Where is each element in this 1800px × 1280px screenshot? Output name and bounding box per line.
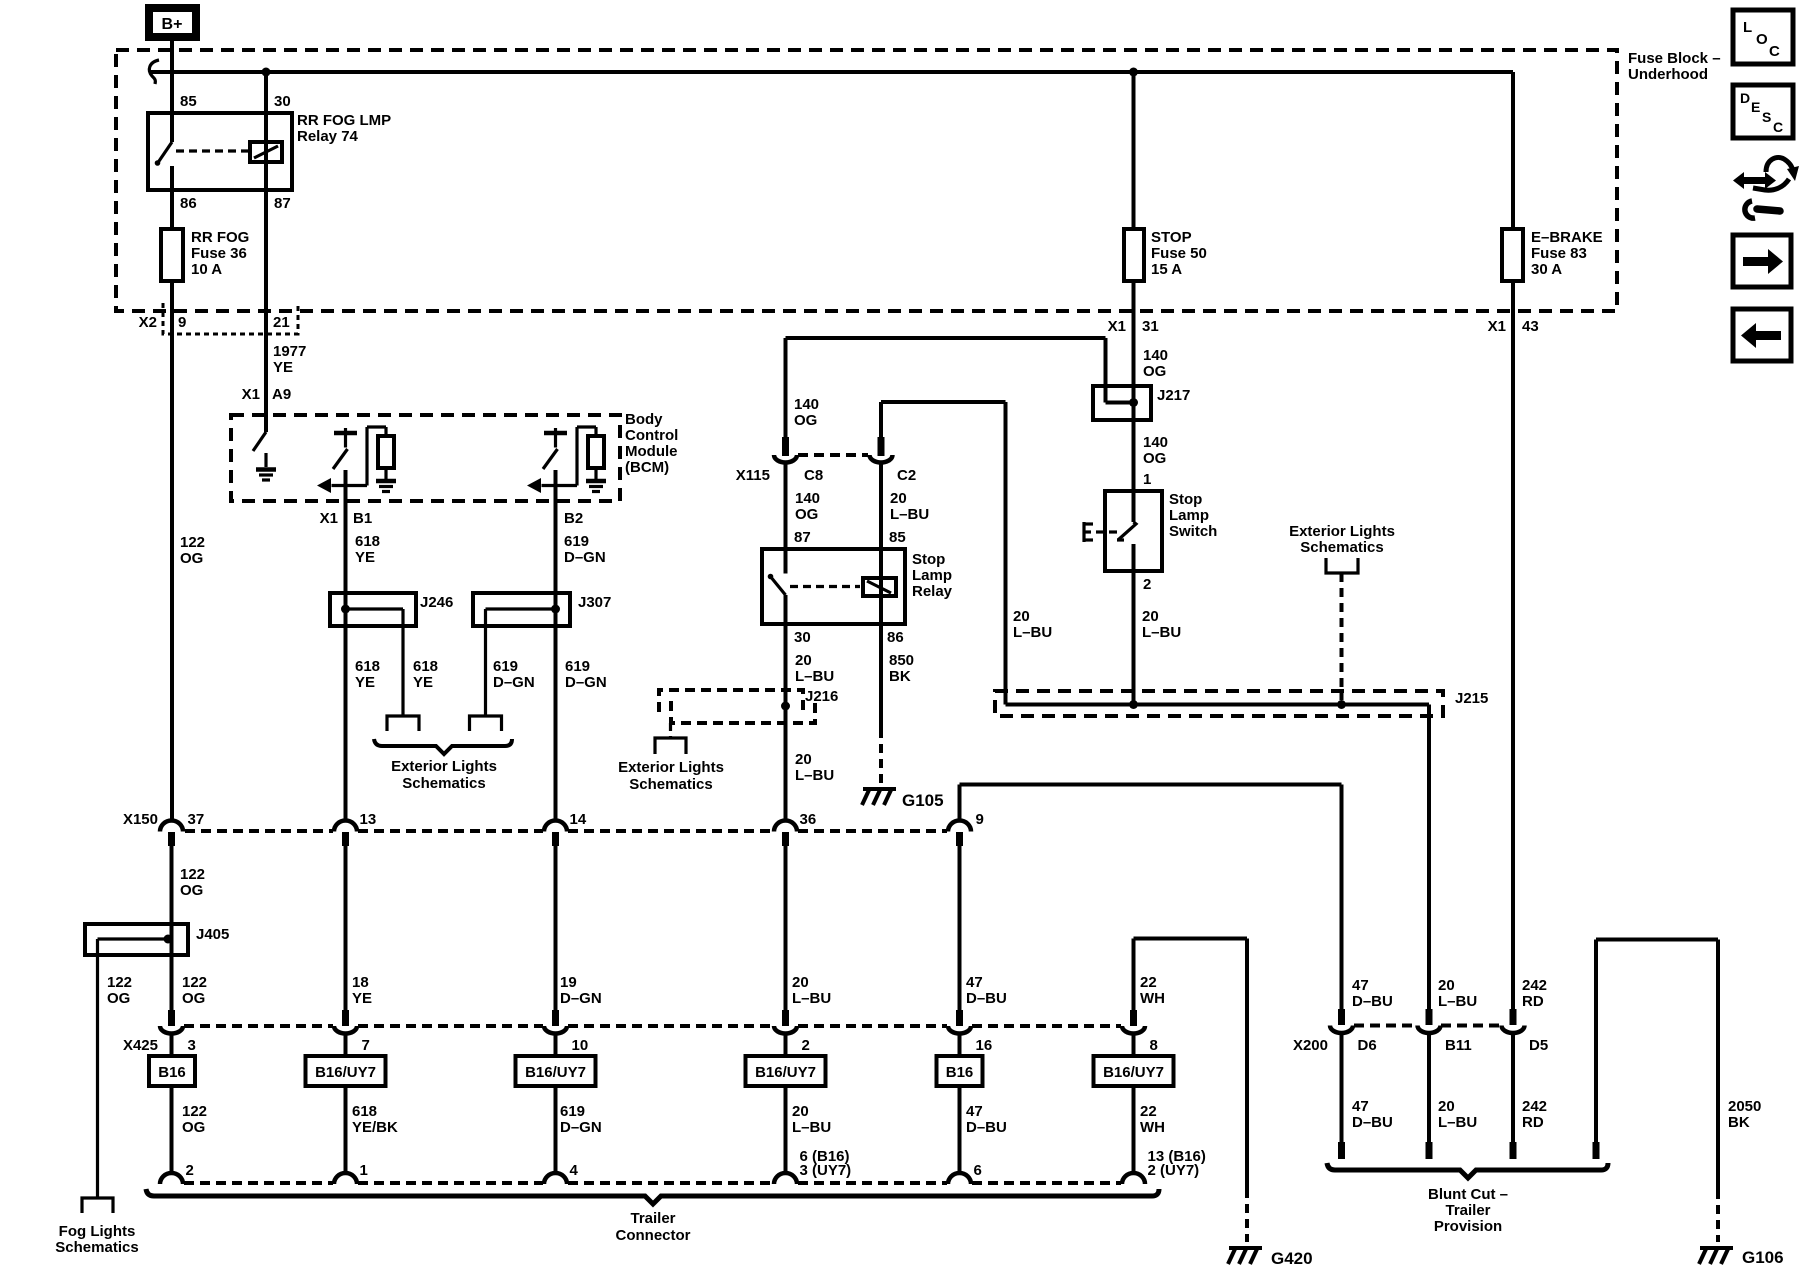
connector X425 pin 8 xyxy=(1130,1010,1137,1026)
node bus to stop fuse xyxy=(1129,68,1138,77)
svg-text:B16/UY7: B16/UY7 xyxy=(315,1064,376,1081)
wire J215 to X200 B11 xyxy=(1427,705,1431,1010)
svg-text:X2: X2 xyxy=(139,314,157,331)
node J216 xyxy=(781,702,790,711)
svg-text:Exterior Lights: Exterior Lights xyxy=(618,759,724,776)
stop relay switch stub xyxy=(784,595,788,624)
blunt cut end spare xyxy=(1593,1142,1600,1159)
svg-text:D–GN: D–GN xyxy=(560,1119,602,1136)
BCM driver ground xyxy=(376,479,396,484)
svg-text:Exterior Lights: Exterior Lights xyxy=(1289,523,1395,540)
BCM driver T-bar xyxy=(544,431,567,436)
svg-text:OG: OG xyxy=(794,412,817,429)
svg-text:2: 2 xyxy=(1143,576,1151,593)
option box B16/UY7 (618) xyxy=(306,1056,386,1086)
wire X425 2 to box xyxy=(784,1034,788,1057)
svg-text:618: 618 xyxy=(413,658,438,675)
svg-text:Schematics: Schematics xyxy=(1300,539,1383,556)
BCM driver ground xyxy=(586,479,606,484)
icon DESC button xyxy=(1733,85,1793,138)
svg-text:47: 47 xyxy=(966,1103,983,1120)
svg-text:47: 47 xyxy=(1352,977,1369,994)
svg-text:J215: J215 xyxy=(1455,690,1488,707)
svg-text:J217: J217 xyxy=(1157,387,1190,404)
svg-text:BK: BK xyxy=(1728,1114,1750,1131)
svg-text:D–BU: D–BU xyxy=(1352,993,1393,1010)
svg-text:1: 1 xyxy=(1143,471,1151,488)
svg-text:BK: BK xyxy=(889,668,911,685)
BCM driver feedback wire xyxy=(365,427,368,486)
splice J246 box xyxy=(330,593,416,626)
svg-text:C: C xyxy=(1769,43,1780,60)
fuse RR FOG Fuse 36 xyxy=(161,229,183,281)
option box B16 (122 OG) xyxy=(149,1056,195,1086)
battery B+ terminal xyxy=(145,4,200,41)
svg-text:G106: G106 xyxy=(1742,1248,1784,1267)
connector X200 pin B11 xyxy=(1426,1009,1433,1025)
svg-text:J405: J405 xyxy=(196,926,229,943)
svg-text:87: 87 xyxy=(274,195,291,212)
svg-text:36: 36 xyxy=(800,811,817,828)
svg-text:X1: X1 xyxy=(320,510,338,527)
wire J405 tap down to fog lights xyxy=(96,939,99,1198)
Body Control Module dashed box xyxy=(231,415,620,501)
svg-text:B16/UY7: B16/UY7 xyxy=(755,1064,816,1081)
svg-text:OG: OG xyxy=(1143,363,1166,380)
svg-text:619: 619 xyxy=(560,1103,585,1120)
stop relay actuator link dashed xyxy=(790,585,860,588)
svg-text:Stop: Stop xyxy=(912,551,945,568)
svg-text:OG: OG xyxy=(180,550,203,567)
switch Stop Lamp Switch box xyxy=(1105,491,1162,571)
svg-text:140: 140 xyxy=(1143,347,1168,364)
svg-text:C: C xyxy=(1773,119,1783,135)
wire stop relay 86 to ground xyxy=(879,624,883,729)
svg-text:20: 20 xyxy=(890,490,907,507)
brake pedal symbol E xyxy=(1082,522,1085,542)
off-page connector J216 tap xyxy=(655,738,686,754)
svg-text:31: 31 xyxy=(1142,318,1159,335)
svg-text:G105: G105 xyxy=(902,791,944,810)
brace blunt cut trailer provision xyxy=(1327,1163,1608,1178)
wire G106 dashed xyxy=(1716,1190,1720,1242)
stop relay coil box xyxy=(863,578,896,596)
svg-text:B16: B16 xyxy=(158,1064,186,1081)
stop relay switch arm xyxy=(770,576,786,595)
svg-text:3: 3 xyxy=(188,1037,196,1054)
relay 74 switch stub to 86 xyxy=(170,166,174,190)
brake pedal dashed link xyxy=(1096,530,1103,533)
wire blunt cut spare xyxy=(1594,940,1598,1143)
svg-text:1977: 1977 xyxy=(273,343,306,360)
svg-text:4: 4 xyxy=(570,1162,579,1179)
wire 47 D-BU horizontal to X200 D6 xyxy=(960,783,1342,787)
connector trailer pin 6 xyxy=(948,1173,971,1184)
blunt cut end B11 xyxy=(1426,1142,1433,1159)
wire X150 37 down xyxy=(170,846,174,1010)
icon arrow left button xyxy=(1733,309,1791,361)
svg-text:122: 122 xyxy=(182,1103,207,1120)
wire battery bus xyxy=(151,70,1513,74)
connector X150 pin 9 xyxy=(948,821,971,832)
svg-text:7: 7 xyxy=(362,1037,370,1054)
svg-text:Lamp: Lamp xyxy=(1169,507,1209,524)
connector X115 C8 terminal xyxy=(774,455,797,463)
option box B16 (47) xyxy=(937,1056,983,1086)
connector X115 C2 pin xyxy=(878,437,885,456)
node J215 switch tap xyxy=(1129,700,1138,709)
svg-text:Relay 74: Relay 74 xyxy=(297,128,359,145)
ground G106 xyxy=(1700,1246,1733,1250)
BCM pull-up resistor xyxy=(378,436,394,468)
svg-text:20: 20 xyxy=(1142,608,1159,625)
blunt cut end D5 xyxy=(1510,1142,1517,1159)
off-page connector 618 tap xyxy=(387,716,419,731)
connector X425 pin 7 xyxy=(342,1010,349,1026)
node J405 xyxy=(164,935,173,944)
svg-text:85: 85 xyxy=(889,529,906,546)
ground G420 xyxy=(1229,1246,1262,1250)
fuse STOP Fuse 50 xyxy=(1124,229,1144,281)
svg-text:D: D xyxy=(1740,90,1750,106)
node bus to relay 30 xyxy=(262,68,271,77)
connector X425 pin 3 xyxy=(168,1010,175,1026)
connector X150 pin 36 xyxy=(774,821,797,832)
fusible link curl xyxy=(149,60,159,84)
svg-text:20: 20 xyxy=(795,751,812,768)
svg-text:D–BU: D–BU xyxy=(966,990,1007,1007)
connector X115 C2 terminal xyxy=(870,455,893,463)
svg-text:L–BU: L–BU xyxy=(792,1119,831,1136)
connector X150 pin 14 xyxy=(544,821,567,832)
svg-text:O: O xyxy=(1756,31,1768,48)
svg-text:D5: D5 xyxy=(1529,1037,1548,1054)
svg-text:850: 850 xyxy=(889,652,914,669)
wire stop relay 30 to X150 pin 36 xyxy=(784,624,788,820)
splice J215 dashed box xyxy=(995,691,1443,716)
svg-text:J246: J246 xyxy=(420,594,453,611)
svg-text:YE: YE xyxy=(273,359,293,376)
svg-text:(BCM): (BCM) xyxy=(625,459,669,476)
wire stop fuse down to J217 xyxy=(1132,281,1136,522)
connector X425 pin 2 xyxy=(782,1010,789,1026)
wire J217 branch xyxy=(1104,338,1108,403)
wire X150 9 up xyxy=(958,785,962,821)
wire relay pin 85 feed xyxy=(170,72,174,142)
svg-text:L–BU: L–BU xyxy=(795,767,834,784)
svg-text:Connector: Connector xyxy=(616,1227,691,1244)
svg-text:86: 86 xyxy=(180,195,197,212)
wire C2 feed down to J215 xyxy=(1004,402,1008,705)
J216 tap dashed stub xyxy=(669,723,672,737)
connector X200 pin D6 xyxy=(1338,1009,1345,1025)
BCM driver output arrow xyxy=(542,484,578,487)
svg-text:2050: 2050 xyxy=(1728,1098,1761,1115)
wire fuse 36 down to X150 pin 37 xyxy=(170,281,174,820)
svg-text:8: 8 xyxy=(1150,1037,1158,1054)
wire 2050 BK horizontal xyxy=(1596,938,1718,942)
connector X425 pin 16 xyxy=(956,1010,963,1026)
svg-text:20: 20 xyxy=(1438,977,1455,994)
svg-text:E: E xyxy=(1751,99,1760,115)
wire B+ stem xyxy=(170,41,174,72)
connector trailer pin 4 xyxy=(544,1173,567,1184)
resistor lead to ground xyxy=(594,468,597,479)
svg-text:X115: X115 xyxy=(736,467,770,484)
icon service/wrench xyxy=(1733,172,1776,189)
svg-text:G420: G420 xyxy=(1271,1249,1313,1268)
svg-text:Body: Body xyxy=(625,411,663,428)
svg-text:D–GN: D–GN xyxy=(493,674,535,691)
svg-text:RR FOG LMP: RR FOG LMP xyxy=(297,112,391,129)
relay 74 coil diagonal xyxy=(254,146,278,158)
wire BCM B2 output xyxy=(554,470,558,820)
option box B16/UY7 (22) xyxy=(1094,1056,1174,1086)
svg-text:J216: J216 xyxy=(805,688,838,705)
off-page connector 619 tap xyxy=(470,716,502,731)
splice J246 tap wire xyxy=(346,607,404,610)
wire X200 D6 down xyxy=(1340,1033,1344,1142)
svg-text:L–BU: L–BU xyxy=(1438,993,1477,1010)
svg-text:19: 19 xyxy=(560,974,577,991)
connector X425 pin 10 xyxy=(552,1010,559,1026)
connector X115 C8 pin xyxy=(782,437,789,456)
wire relay pin 30 feed xyxy=(264,72,268,190)
svg-text:OG: OG xyxy=(182,990,205,1007)
off-page connector fog lights xyxy=(82,1198,113,1213)
svg-text:Control: Control xyxy=(625,427,678,444)
svg-text:A9: A9 xyxy=(272,386,291,403)
splice J216 dashed box B xyxy=(671,701,815,723)
svg-text:L–BU: L–BU xyxy=(1013,624,1052,641)
svg-text:WH: WH xyxy=(1140,1119,1165,1136)
wire BCM B1 output xyxy=(344,470,348,820)
splice J307 tap wire xyxy=(486,607,556,610)
fuse block underhood dashed box xyxy=(116,50,1617,311)
svg-text:10: 10 xyxy=(572,1037,589,1054)
brace trailer connector xyxy=(146,1189,1159,1204)
splice J216 dashed box A xyxy=(659,690,803,712)
svg-text:140: 140 xyxy=(794,396,819,413)
splice J307 box xyxy=(473,593,570,626)
svg-text:D–GN: D–GN xyxy=(560,990,602,1007)
svg-text:D–BU: D–BU xyxy=(1352,1114,1393,1131)
svg-text:Blunt Cut –: Blunt Cut – xyxy=(1428,1186,1508,1203)
svg-text:OG: OG xyxy=(1143,450,1166,467)
svg-text:30 A: 30 A xyxy=(1531,261,1562,278)
splice J217 box xyxy=(1093,386,1151,420)
svg-text:Fuse 36: Fuse 36 xyxy=(191,245,247,262)
splice J215 wire xyxy=(1006,703,1430,707)
svg-text:Fog Lights: Fog Lights xyxy=(59,1223,136,1240)
connector X425 plane dashed xyxy=(184,1024,333,1028)
wire C2 to relay 85 xyxy=(879,463,883,625)
svg-text:YE/BK: YE/BK xyxy=(352,1119,398,1136)
svg-text:2: 2 xyxy=(186,1162,194,1179)
svg-text:Schematics: Schematics xyxy=(402,775,485,792)
dashed wire exterior lights to J215 xyxy=(1340,573,1344,700)
svg-text:16: 16 xyxy=(976,1037,993,1054)
wire down to X115 C8 xyxy=(784,338,788,437)
svg-text:Exterior Lights: Exterior Lights xyxy=(391,758,497,775)
wire relay 87 down to BCM A9 xyxy=(264,190,268,432)
svg-text:B2: B2 xyxy=(564,510,583,527)
svg-text:122: 122 xyxy=(182,974,207,991)
svg-text:Trailer: Trailer xyxy=(630,1210,675,1227)
connector X200 pin D5 xyxy=(1510,1009,1517,1025)
svg-text:43: 43 xyxy=(1522,318,1539,335)
svg-text:B11: B11 xyxy=(1445,1037,1472,1054)
svg-text:YE: YE xyxy=(413,674,433,691)
svg-text:J307: J307 xyxy=(578,594,611,611)
svg-text:122: 122 xyxy=(107,974,132,991)
svg-text:20: 20 xyxy=(1438,1098,1455,1115)
svg-text:S: S xyxy=(1762,109,1771,125)
trailer connector plane dashed xyxy=(184,1181,333,1185)
svg-text:WH: WH xyxy=(1140,990,1165,1007)
wire X150 9 down xyxy=(958,846,962,1010)
svg-text:618: 618 xyxy=(355,658,380,675)
svg-text:15 A: 15 A xyxy=(1151,261,1182,278)
BCM driver switch arm xyxy=(543,449,558,469)
svg-text:20: 20 xyxy=(795,652,812,669)
BCM internal ground stem xyxy=(264,453,267,467)
svg-text:X150: X150 xyxy=(123,811,158,828)
svg-text:B16/UY7: B16/UY7 xyxy=(525,1064,586,1081)
svg-text:YE: YE xyxy=(352,990,372,1007)
svg-text:22: 22 xyxy=(1140,1103,1157,1120)
svg-text:B+: B+ xyxy=(162,16,183,33)
svg-text:X425: X425 xyxy=(123,1037,158,1054)
svg-text:C8: C8 xyxy=(804,467,823,484)
svg-text:OG: OG xyxy=(182,1119,205,1136)
wire X425 8 to box xyxy=(1132,1034,1136,1057)
BCM driver switch arm xyxy=(333,449,348,469)
svg-text:YE: YE xyxy=(355,549,375,566)
svg-text:20: 20 xyxy=(792,1103,809,1120)
svg-text:122: 122 xyxy=(180,534,205,551)
svg-text:Lamp: Lamp xyxy=(912,567,952,584)
icon arrow right button xyxy=(1733,235,1791,287)
wire down to X115 C2 xyxy=(879,402,883,437)
brace exterior lights xyxy=(374,739,512,754)
icon LOC button xyxy=(1733,10,1793,64)
svg-text:86: 86 xyxy=(887,629,904,646)
connector X150 pin 37 xyxy=(160,821,183,832)
svg-text:RD: RD xyxy=(1522,993,1544,1010)
connector X2 dotted box xyxy=(163,303,298,334)
svg-text:C2: C2 xyxy=(897,467,916,484)
svg-text:Fuse 83: Fuse 83 xyxy=(1531,245,1587,262)
svg-text:L: L xyxy=(1743,19,1752,36)
svg-text:OG: OG xyxy=(107,990,130,1007)
svg-text:9: 9 xyxy=(976,811,984,828)
relay 74 coil box xyxy=(250,142,282,162)
BCM pull-up resistor xyxy=(588,436,604,468)
ground G105 xyxy=(863,787,896,791)
svg-text:L–BU: L–BU xyxy=(792,990,831,1007)
wire 2050 BK to G106 xyxy=(1716,940,1720,1191)
svg-text:D6: D6 xyxy=(1358,1037,1377,1054)
svg-text:1: 1 xyxy=(360,1162,368,1179)
node J215 exterior lights tap xyxy=(1337,700,1346,709)
BCM driver T-bar xyxy=(334,431,357,436)
svg-text:L–BU: L–BU xyxy=(1142,624,1181,641)
wire 850 BK dashed to G105 xyxy=(879,729,883,788)
wire to G420 dashed xyxy=(1245,1189,1249,1242)
connector X200 plane dashed xyxy=(1354,1024,1416,1028)
svg-text:Module: Module xyxy=(625,443,678,460)
BCM driver output arrow xyxy=(332,484,368,487)
svg-text:Trailer: Trailer xyxy=(1445,1202,1490,1219)
connector trailer pin 2 xyxy=(160,1173,183,1184)
svg-text:3 (UY7): 3 (UY7) xyxy=(800,1162,852,1179)
fuse E-BRAKE Fuse 83 xyxy=(1502,229,1523,281)
svg-text:X1: X1 xyxy=(242,386,260,403)
svg-text:20: 20 xyxy=(1013,608,1030,625)
svg-text:140: 140 xyxy=(1143,434,1168,451)
svg-text:47: 47 xyxy=(966,974,983,991)
svg-text:B16: B16 xyxy=(946,1064,974,1081)
svg-text:6: 6 xyxy=(974,1162,982,1179)
wire X425 3 to box xyxy=(170,1034,174,1057)
svg-text:D–GN: D–GN xyxy=(564,549,606,566)
BCM driver stub xyxy=(554,433,557,448)
wire bus drop to E-BRAKE fuse 83 xyxy=(1511,72,1515,229)
relay RR FOG LMP Relay 74 box xyxy=(148,113,292,190)
wire e-brake fuse down to X200 D5 xyxy=(1511,281,1515,1009)
splice J405 box xyxy=(85,924,188,955)
svg-text:RR FOG: RR FOG xyxy=(191,229,249,246)
svg-text:13: 13 xyxy=(360,811,377,828)
svg-text:122: 122 xyxy=(180,866,205,883)
svg-text:Schematics: Schematics xyxy=(629,776,712,793)
svg-text:30: 30 xyxy=(794,629,811,646)
svg-text:YE: YE xyxy=(355,674,375,691)
wire X150 14 down xyxy=(554,846,558,1010)
wire 86 to fuse 36 xyxy=(170,190,174,229)
BCM driver feedback wire xyxy=(575,427,578,486)
wire X425 7 to box xyxy=(344,1034,348,1057)
svg-text:E–BRAKE: E–BRAKE xyxy=(1531,229,1603,246)
svg-text:14: 14 xyxy=(570,811,587,828)
svg-text:Provision: Provision xyxy=(1434,1218,1502,1235)
svg-text:B1: B1 xyxy=(353,510,372,527)
svg-text:Underhood: Underhood xyxy=(1628,66,1708,83)
svg-text:D–BU: D–BU xyxy=(966,1119,1007,1136)
svg-text:X200: X200 xyxy=(1293,1037,1328,1054)
option box B16/UY7 (619) xyxy=(516,1056,596,1086)
svg-text:Switch: Switch xyxy=(1169,523,1217,540)
wire X150 13 down xyxy=(344,846,348,1010)
svg-text:22: 22 xyxy=(1140,974,1157,991)
wire 47 D-BU down to X200 D6 xyxy=(1340,785,1344,1010)
svg-text:OG: OG xyxy=(180,882,203,899)
svg-text:Stop: Stop xyxy=(1169,491,1202,508)
connector trailer pin 1 xyxy=(334,1173,357,1184)
svg-text:30: 30 xyxy=(274,93,291,110)
relay 74 switch arm xyxy=(157,142,172,164)
svg-text:D–GN: D–GN xyxy=(565,674,607,691)
wire bus to STOP fuse 50 xyxy=(1132,72,1136,229)
svg-text:140: 140 xyxy=(795,490,820,507)
node J246 xyxy=(341,605,350,614)
svg-text:619: 619 xyxy=(564,533,589,550)
svg-text:OG: OG xyxy=(795,506,818,523)
svg-text:10 A: 10 A xyxy=(191,261,222,278)
stop relay coil diagonal xyxy=(867,581,891,593)
BCM internal ground xyxy=(256,467,276,472)
